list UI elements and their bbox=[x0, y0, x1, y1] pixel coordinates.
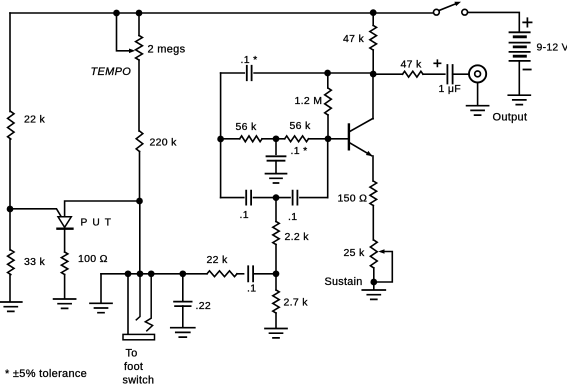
ground (2.7k) bbox=[265, 329, 287, 338]
resistor R13 47k bbox=[403, 71, 424, 77]
capacitor C5 .1 bbox=[246, 191, 251, 205]
ground (.22) bbox=[171, 328, 195, 337]
wire footswitch mid contact bbox=[136, 274, 140, 320]
svg-text:22 k: 22 k bbox=[24, 114, 45, 126]
node B (top rail to tempo pot) bbox=[136, 10, 143, 17]
wire collector bbox=[372, 74, 374, 119]
wiper arrow (tempo) bbox=[129, 49, 135, 54]
wire bottom rail bbox=[101, 273, 207, 275]
potentiometer R4 2 megs bbox=[136, 36, 143, 61]
resistor R7 2.7k bbox=[273, 290, 279, 313]
capacitor C2 .1 bbox=[248, 266, 253, 281]
transistor Q2 bbox=[348, 125, 350, 150]
svg-text:56 k: 56 k bbox=[290, 120, 311, 132]
ground (sustain) bbox=[362, 290, 385, 299]
switch S1 bbox=[439, 3, 457, 10]
wire 2.7k to ground bbox=[275, 313, 277, 328]
node H bbox=[148, 270, 155, 277]
ground (battery) bbox=[508, 95, 530, 104]
node D (gate divider) bbox=[7, 206, 14, 213]
wire box right vertical bbox=[327, 139, 329, 198]
node Q bbox=[370, 279, 377, 286]
wire cap to jack bbox=[453, 73, 469, 75]
resistor R10 56k bbox=[240, 136, 262, 142]
wire box top left bbox=[221, 72, 245, 74]
wire footswitch right contact bbox=[145, 274, 152, 331]
wire box bottom mid bbox=[254, 197, 291, 199]
ground (33k) bbox=[0, 302, 22, 311]
wire divider down to 33k bbox=[9, 209, 11, 250]
node E (anode to 220k line) bbox=[136, 198, 143, 205]
wire mid to base node bbox=[309, 138, 329, 140]
wire 1.2M stem bbox=[327, 73, 329, 88]
wire 25k to node Q bbox=[373, 268, 375, 282]
node P bbox=[273, 194, 280, 201]
resistor R1 22k bbox=[8, 112, 14, 140]
svg-text:2.2 k: 2.2 k bbox=[285, 231, 310, 243]
jack J1 output bbox=[469, 65, 486, 82]
wire 47k to node L bbox=[372, 50, 374, 74]
svg-text:foot: foot bbox=[124, 361, 143, 373]
node L (output node) bbox=[370, 71, 377, 78]
wiper arrow (sustain) bbox=[378, 249, 384, 254]
svg-text:To: To bbox=[126, 348, 138, 360]
battery B1 bbox=[510, 32, 530, 61]
resistor R14 150ohm bbox=[370, 181, 377, 206]
wire 150 to 25k bbox=[372, 206, 374, 241]
wire switch to battery bbox=[468, 12, 520, 31]
svg-text:220 k: 220 k bbox=[150, 137, 178, 149]
svg-text:TEMPO: TEMPO bbox=[91, 66, 132, 78]
svg-text:33 k: 33 k bbox=[24, 256, 45, 268]
wire box bottom right bbox=[300, 197, 328, 199]
wire 33k to ground bbox=[9, 275, 11, 302]
svg-text:* ±5% tolerance: * ±5% tolerance bbox=[5, 368, 87, 380]
svg-text:56 k: 56 k bbox=[236, 121, 257, 133]
svg-text:2.7 k: 2.7 k bbox=[284, 297, 309, 309]
resistor R11 56k bbox=[285, 136, 309, 142]
svg-text:.22: .22 bbox=[196, 300, 212, 312]
wire rail to ground stem bbox=[100, 274, 102, 303]
wire divider to PUT gate bbox=[10, 209, 61, 217]
wire left column bbox=[9, 13, 11, 112]
node C (top rail to 47k) bbox=[370, 9, 377, 16]
svg-text:.1 *: .1 * bbox=[291, 145, 308, 157]
capacitor C1 .22 stem bbox=[182, 274, 184, 302]
svg-text:P U T: P U T bbox=[81, 218, 113, 229]
svg-text:1 μF: 1 μF bbox=[439, 83, 461, 95]
wire PUT cathode bbox=[64, 229, 66, 252]
wire wiper branch bbox=[117, 13, 131, 51]
capacitor C6 .1 bbox=[293, 191, 298, 205]
wire base bbox=[328, 138, 348, 140]
wire battery to ground bbox=[518, 61, 520, 95]
node F bbox=[125, 270, 132, 277]
node N (mid junction) bbox=[273, 135, 280, 142]
wire top rail left bbox=[10, 12, 434, 14]
node J bbox=[273, 270, 280, 277]
wire jack to ground bbox=[477, 83, 479, 106]
label + (C7) bbox=[434, 60, 440, 66]
wire sustain wiper loop bbox=[375, 252, 392, 283]
node A (top rail to tempo wiper) bbox=[113, 10, 120, 17]
svg-text:switch: switch bbox=[123, 375, 155, 387]
resistor R12 47k bbox=[370, 25, 377, 50]
wire node E to footswitch rail bbox=[139, 201, 141, 274]
resistor R5 220k bbox=[136, 131, 143, 152]
svg-text:1.2 M: 1.2 M bbox=[295, 95, 323, 107]
resistor R6 22k bbox=[207, 271, 237, 277]
wire mid left bbox=[221, 138, 240, 140]
wire emitter bbox=[372, 156, 374, 181]
node I (to .22 cap) bbox=[179, 270, 186, 277]
capacitor C4 .1* stem bbox=[275, 139, 277, 155]
capacitor C4 .1* bbox=[267, 156, 286, 160]
node K (1.2M top) bbox=[324, 70, 331, 77]
svg-text:.1 *: .1 * bbox=[241, 54, 258, 66]
svg-text:.1: .1 bbox=[288, 211, 297, 223]
ground (jack) bbox=[467, 106, 489, 115]
svg-text:47 k: 47 k bbox=[343, 33, 364, 45]
wire cap to node J bbox=[253, 273, 276, 275]
ground (C4) bbox=[266, 174, 287, 183]
wire 2.2k to box bbox=[275, 198, 277, 222]
capacitor C7 1uF bbox=[447, 65, 452, 84]
resistor R2 33k bbox=[8, 250, 14, 275]
battery B1 plus label bbox=[523, 18, 531, 26]
svg-text:100 Ω: 100 Ω bbox=[78, 253, 108, 265]
wire node Q to ground bbox=[373, 282, 375, 290]
svg-text:25 k: 25 k bbox=[344, 247, 365, 259]
svg-text:150 Ω: 150 Ω bbox=[338, 193, 368, 205]
wire footswitch left contact bbox=[127, 274, 129, 334]
wire 47k stem bbox=[372, 13, 374, 26]
wire 47k to cap bbox=[423, 73, 445, 75]
svg-text:9-12 V: 9-12 V bbox=[537, 43, 567, 54]
capacitor C3 .1* bbox=[247, 66, 252, 80]
resistor R3 100ohm bbox=[61, 252, 67, 275]
wire node J to 2.7k bbox=[275, 274, 277, 290]
svg-text:Output: Output bbox=[493, 112, 528, 124]
wire 1.2M to base node bbox=[327, 115, 329, 139]
wire PUT anode bbox=[65, 201, 140, 217]
wire C4 to ground bbox=[275, 161, 277, 174]
svg-text:Sustain: Sustain bbox=[325, 276, 363, 288]
resistor R9 1.2M bbox=[325, 88, 332, 115]
footswitch plate bbox=[123, 334, 155, 339]
wire node L to 47k bbox=[373, 73, 402, 75]
resistor R8 2.2k bbox=[273, 222, 279, 245]
svg-text:.1: .1 bbox=[240, 209, 249, 221]
svg-text:.1: .1 bbox=[247, 283, 256, 295]
battery minus label bbox=[524, 69, 531, 71]
wire box bottom left bbox=[221, 197, 244, 199]
wire 22k to divider node bbox=[9, 139, 11, 209]
wire .22 to ground bbox=[182, 306, 184, 327]
node O (base node) bbox=[325, 135, 332, 142]
potentiometer R15 25k bbox=[370, 240, 377, 268]
wire 220k to node E bbox=[139, 152, 141, 202]
wire pot to 220k bbox=[138, 60, 140, 131]
wire 22k to cap bbox=[237, 273, 244, 275]
wire node J to 2.2k bbox=[275, 245, 277, 274]
svg-text:22 k: 22 k bbox=[207, 254, 228, 266]
svg-text:2 megs: 2 megs bbox=[148, 44, 186, 56]
node M (box mid left) bbox=[217, 136, 224, 143]
wire box left bbox=[220, 73, 222, 198]
wire box top right bbox=[254, 72, 373, 74]
wire pot top bbox=[138, 13, 140, 36]
wire mid between bbox=[262, 138, 285, 140]
wire 100ohm to ground bbox=[64, 275, 66, 299]
node G bbox=[137, 270, 144, 277]
ground (rail left) bbox=[90, 303, 112, 312]
svg-text:47 k: 47 k bbox=[401, 59, 422, 71]
ground (100 ohm) bbox=[54, 299, 76, 308]
transistor Q1 PUT bbox=[58, 217, 71, 228]
capacitor C1 .22 bbox=[174, 302, 192, 307]
